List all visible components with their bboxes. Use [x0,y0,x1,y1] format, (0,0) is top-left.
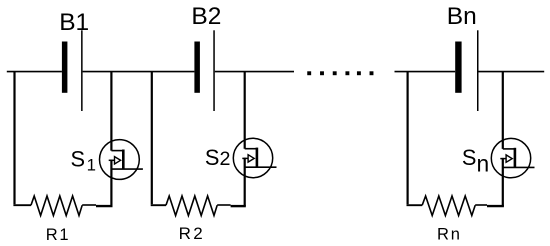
wire: left branch wire of cell n [407,71,409,204]
wire: bottom rail left lead to Rn [407,204,423,206]
wire: thick corner segment joining S2 source wire [231,205,246,207]
wire: bus segment from dotted break to Bn [395,71,456,73]
label Sn with subscript n [462,145,489,177]
wire: bus segment from B2 to dotted break [215,71,294,73]
svg-text:S2: S2 [205,145,231,170]
wire: source lead of Sn down to resistor rail [502,158,504,206]
wire: bottom rail left lead to R1 [13,204,31,206]
svg-text:Rn: Rn [437,225,462,243]
wire: bus segment right of Bn [479,71,545,73]
svg-text:B2: B2 [191,3,221,30]
svg-text:R1: R1 [46,226,70,244]
battery Bn: thin long plate [477,30,479,111]
wire: drain lead of S2 from top bus [244,71,246,149]
svg-text:B1: B1 [59,9,89,36]
battery B1: thin long plate [81,30,83,111]
svg-text:Bn: Bn [447,3,477,30]
battery B1: thick short plate [62,42,68,93]
wire: left branch wire of cell 2 [151,71,153,204]
wire: source lead of S2 down to resistor rail [244,158,246,207]
battery B2: thin long plate [213,30,215,111]
svg-text:S1: S1 [71,146,96,174]
wire: left branch wire of cell 1 [13,71,15,204]
wire: thick corner segment joining Sn source wire [487,205,504,207]
wire: source lead of S1 down to resistor rail [110,160,112,207]
label R1 [46,226,70,244]
resistor R2 [166,196,217,216]
label S2 [205,145,231,170]
wire: drain lead of S1 from top bus [110,71,112,151]
label B1 [59,9,89,36]
wire: drain lead of Sn from top bus [502,71,504,149]
svg-text:R2: R2 [179,224,206,243]
wire: bus segment between B1 and B2 [83,71,195,73]
resistor Rn [422,196,475,216]
label S1 with subscript 1 [71,146,96,174]
dotted continuation of series string [307,71,373,75]
wire: lead from R2 toward switch branch [217,204,230,206]
transistor Sn (MOSFET switch Sn) [491,138,534,177]
label Rn [437,225,462,243]
battery Bn: thick short plate [455,42,461,93]
svg-text:Sn: Sn [462,145,489,177]
wire: lead from Rn toward switch branch [475,204,487,206]
wire: top series bus, segment left of B1 [7,71,62,73]
transistor S1 (MOSFET switch S1) [100,140,143,180]
label B2 [191,3,221,30]
transistor S2 (MOSFET switch S2) [233,138,276,177]
label R2 [179,224,206,243]
wire: bottom rail left lead to R2 [151,204,166,206]
label Bn [447,3,477,30]
resistor R1 [31,196,82,216]
wire: lead from R1 toward switch branch [82,204,96,206]
battery B2: thick short plate [194,42,200,93]
wire: thick corner segment joining S1 source wire [96,205,113,207]
